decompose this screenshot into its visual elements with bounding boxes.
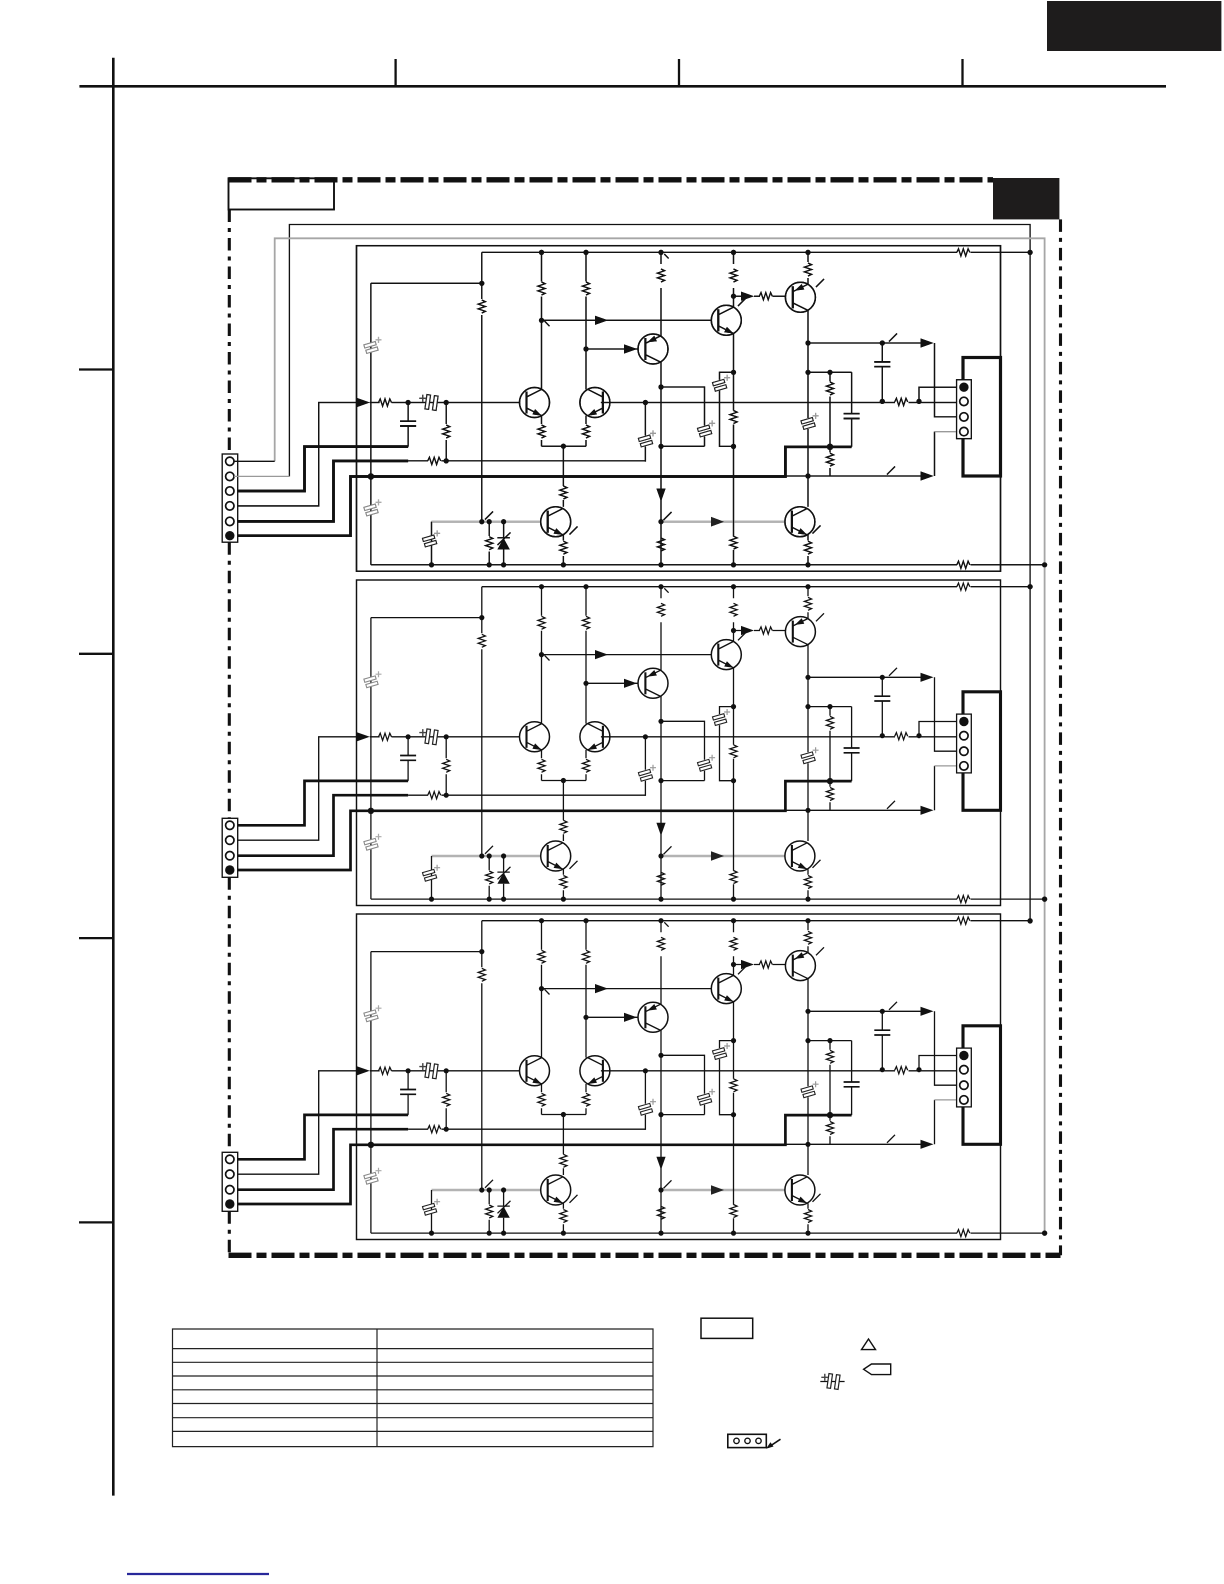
resistor R-Q3e <box>730 536 737 549</box>
board border left <box>228 210 231 1256</box>
wire comp upper <box>661 387 705 446</box>
pin CN1-3 <box>226 487 234 495</box>
board label box <box>229 178 335 209</box>
crop mark vertical rule <box>112 58 115 1496</box>
node comp bottom <box>658 444 663 449</box>
wire left branch <box>371 283 482 565</box>
capacitor C-in shunt <box>407 403 409 447</box>
pin CN1-4 <box>226 502 234 510</box>
resistor R-bias1 <box>730 411 737 424</box>
node tail <box>561 444 566 449</box>
wire CN pin3 thick <box>235 447 409 491</box>
channel 2 amplifier <box>225 580 1047 906</box>
node Q1 mirror tap <box>539 318 544 323</box>
node series-R branch <box>444 400 449 405</box>
node bias bottom <box>805 473 810 478</box>
wire feedback <box>408 460 645 462</box>
node Q3 drive tap <box>731 294 736 299</box>
tick left 3 <box>79 937 113 939</box>
transistor Q2 <box>638 334 668 364</box>
resistor R-fb lower <box>428 457 441 464</box>
tick Q8 <box>813 526 821 534</box>
pin CN3-3 <box>226 1155 234 1163</box>
arrow Q2 base <box>624 344 637 353</box>
parts table <box>173 1329 654 1447</box>
wire Q2 base <box>586 348 638 350</box>
node rail-bus junction <box>1028 250 1033 255</box>
node protect lower top <box>487 519 492 524</box>
tick left 4 <box>79 1221 113 1223</box>
node protect tap <box>479 519 484 524</box>
wire bottom return rail <box>371 564 1045 566</box>
legend capacitor symbol <box>820 1381 844 1383</box>
pin B <box>226 502 234 510</box>
resistor R-bias2 <box>826 382 833 395</box>
channel 3 amplifier <box>225 914 1047 1240</box>
transistor Q3 <box>711 305 741 335</box>
wire input series <box>408 402 446 404</box>
node RC bottom <box>731 444 736 449</box>
capacitor C-bias <box>844 414 860 419</box>
wire Q4 base link <box>734 295 786 297</box>
pin D <box>225 531 234 540</box>
node bus return b2 <box>1042 897 1047 902</box>
resistor R-Q3c <box>730 269 737 282</box>
wire bus V+ top <box>289 225 1030 922</box>
resistor R-Q1e <box>538 425 545 438</box>
wire Q5 emitter <box>585 416 587 447</box>
board border right <box>1059 219 1062 1255</box>
wire Q1 emitter <box>541 416 543 447</box>
resistor R-Q4b <box>759 293 772 300</box>
resistor R-out sense <box>895 398 908 405</box>
pin 2 out <box>960 397 968 405</box>
pin CN1-6 <box>225 531 234 540</box>
wire Q2 emitter <box>660 252 662 336</box>
pin CN1-1 <box>226 457 234 465</box>
wire RC cap branch <box>720 372 734 446</box>
node comp top <box>658 384 663 389</box>
wire to Q1 base <box>446 402 519 404</box>
capacitor C-comp1 <box>697 420 715 437</box>
wire shunt column <box>431 522 433 565</box>
wire CN pin6 thick bus <box>235 447 852 536</box>
node bottom-2 <box>487 562 492 567</box>
channel 1 amplifier <box>225 246 1047 572</box>
wire bias resistor top <box>829 372 831 476</box>
tick left 2 <box>79 653 113 655</box>
capacitor C1 <box>364 337 382 354</box>
connector CN-out body <box>957 380 972 439</box>
tick Q8 base tap <box>664 512 672 520</box>
resistor R-Q2e <box>657 269 664 282</box>
transistor Q4 <box>785 282 815 312</box>
node thick bias tap <box>827 444 833 450</box>
wire Q8 base <box>661 521 785 523</box>
pin 1 out <box>959 383 968 392</box>
board name redacted <box>993 178 1059 219</box>
legend box symbol <box>701 1318 753 1338</box>
legend tag symbol <box>864 1364 891 1375</box>
wire Q8 emitter <box>807 535 809 565</box>
node bias mid <box>827 370 832 375</box>
wire bias cap <box>851 372 853 447</box>
resistor R-Q8e <box>804 541 811 554</box>
arrow input signal <box>357 398 370 407</box>
pin CN1-2 <box>226 472 234 480</box>
wire Q1 collector <box>541 252 543 389</box>
wire protect column <box>481 252 483 521</box>
wire VAS column <box>660 362 662 565</box>
tick left 1 <box>79 368 113 370</box>
node RC top <box>731 370 736 375</box>
resistor R-bias3 <box>826 453 833 466</box>
node fb <box>643 400 648 405</box>
pin A <box>226 487 234 495</box>
node bottom-1 <box>429 562 434 567</box>
node Q5 base tap <box>583 346 588 351</box>
tick Q3 <box>738 298 746 306</box>
tick top 1 <box>394 59 396 86</box>
capacitor C-fb <box>638 430 656 447</box>
arrow drive lower <box>921 471 934 480</box>
wire fb riser <box>644 403 646 462</box>
tick drive lower <box>887 467 895 475</box>
node Q3 rail <box>731 250 736 255</box>
wire mirror link <box>542 319 712 321</box>
node Q5 rail <box>583 250 588 255</box>
arrow Q8 base <box>711 517 724 527</box>
connector CN2 body <box>222 818 238 877</box>
wire Q3 emitter <box>733 334 735 565</box>
resistor R-Q5c <box>582 282 589 295</box>
wire input from CN pin4 <box>235 403 357 506</box>
board border bottom <box>229 1253 1061 1258</box>
resistor R-VAS <box>657 538 664 551</box>
tick drive upper <box>889 334 897 342</box>
board border top <box>229 177 994 182</box>
node thick bus tap <box>368 473 374 479</box>
node Q2 rail <box>658 250 663 255</box>
node zener top <box>501 519 506 524</box>
speaker relay frame <box>963 358 1001 477</box>
resistor R-prot1 <box>478 300 485 313</box>
resistor R-fb upper <box>445 403 447 461</box>
wire comp lower <box>661 445 705 447</box>
wire CN1 pin2 <box>234 475 289 477</box>
capacitor C-series <box>419 395 438 411</box>
wire bias node <box>808 371 852 373</box>
legend triangle symbol <box>862 1339 876 1350</box>
node bottom-4 <box>561 562 566 567</box>
tick zener <box>498 533 511 546</box>
wire Q4 emitter <box>807 252 809 284</box>
wire pin4 link <box>935 431 960 433</box>
transistor Q7 <box>541 507 571 537</box>
node bias top <box>805 370 810 375</box>
node bottom-5 <box>731 562 736 567</box>
wire protect lower <box>488 522 490 565</box>
resistor R-prot2 <box>486 537 493 550</box>
tick protect <box>485 512 493 520</box>
wire Q7 base <box>432 521 541 523</box>
node Q8 base tap <box>658 519 663 524</box>
node return-bus junction <box>1042 562 1047 567</box>
node bottom-6 <box>805 562 810 567</box>
node input filter <box>406 400 411 405</box>
pin CN3-4 <box>226 1170 234 1178</box>
resistor R-return <box>957 561 970 568</box>
wire driver column <box>807 310 809 506</box>
tick top 3 <box>961 59 963 86</box>
pin CN2-3 <box>226 821 234 829</box>
node out cap <box>880 399 885 404</box>
node bus V+ b2 <box>1028 584 1033 589</box>
wire positive rail <box>482 251 1030 253</box>
tick Q4 <box>816 279 824 287</box>
wire Q3 collector <box>733 252 735 307</box>
pin CN3-5 <box>226 1186 234 1194</box>
pin CN3-6 <box>225 1199 234 1208</box>
wire CN1 pin1 <box>234 460 275 462</box>
resistor R-tail <box>560 486 567 499</box>
connector CN3 body <box>222 1152 238 1211</box>
resistor R-Q7e <box>560 541 567 554</box>
node bottom-3 <box>501 562 506 567</box>
transistor Q8 <box>785 507 815 537</box>
wire Q5 collector <box>585 252 587 389</box>
footer rule <box>127 1573 269 1575</box>
resistor R-in <box>379 399 392 406</box>
transistor Q1 <box>520 388 550 418</box>
crop mark horizontal rule <box>79 85 1166 88</box>
pin CN2-4 <box>226 836 234 844</box>
wire bus return top <box>275 238 1045 1233</box>
amplifier board outline <box>357 246 1001 572</box>
arrow VAS down <box>656 489 665 502</box>
resistor R-rail <box>957 249 970 256</box>
node drive out <box>805 340 810 345</box>
node Q1 rail <box>539 250 544 255</box>
tick top 2 <box>678 59 680 86</box>
arrow mirror link <box>595 316 608 325</box>
node left-branch top <box>479 281 484 286</box>
pin CN2-6 <box>225 865 234 874</box>
transistor Q5 <box>580 388 610 418</box>
capacitor C-out <box>881 343 883 401</box>
wire CN pin5 thick <box>235 461 409 522</box>
tick Q7 <box>570 527 578 535</box>
diode D1 zener <box>497 522 509 565</box>
capacitor C2 <box>364 499 382 516</box>
capacitor C-rc <box>712 375 730 392</box>
wire drive lower <box>785 432 934 476</box>
tick mirror <box>545 321 550 326</box>
resistor R-Q5e <box>582 425 589 438</box>
node Q4 rail <box>805 250 810 255</box>
wire tail source <box>562 446 564 507</box>
capacitor C-shunt <box>422 530 440 547</box>
pin CN1-5 <box>226 517 234 525</box>
node bus V+ b3 <box>1028 918 1033 923</box>
capacitor C-drv <box>801 413 819 430</box>
pin CN2-5 <box>226 852 234 860</box>
connector CN1 body <box>222 454 238 542</box>
wire drive upper <box>808 343 959 417</box>
node drive cap <box>880 340 885 345</box>
wire input line <box>370 402 408 404</box>
node bus return b3 <box>1042 1231 1047 1236</box>
node out sense <box>916 399 921 404</box>
wire mid line <box>601 402 959 404</box>
wire pin1 link <box>919 387 959 401</box>
node fb-R junction <box>444 458 449 463</box>
pin C <box>226 517 234 525</box>
arrow Q4 base <box>741 292 754 301</box>
arrow drive upper <box>921 338 934 347</box>
title block redacted <box>1047 1 1221 51</box>
tick Q2 rail <box>664 254 668 258</box>
wire tail join <box>542 445 587 447</box>
resistor R-Q1c <box>538 282 545 295</box>
pin 4 out <box>960 427 968 435</box>
resistor R-Q4e <box>804 263 811 276</box>
node VAS bottom <box>658 562 663 567</box>
pin 3 out <box>960 413 968 421</box>
legend connector symbol <box>728 1434 767 1447</box>
wire Q7 emitter <box>562 535 564 565</box>
